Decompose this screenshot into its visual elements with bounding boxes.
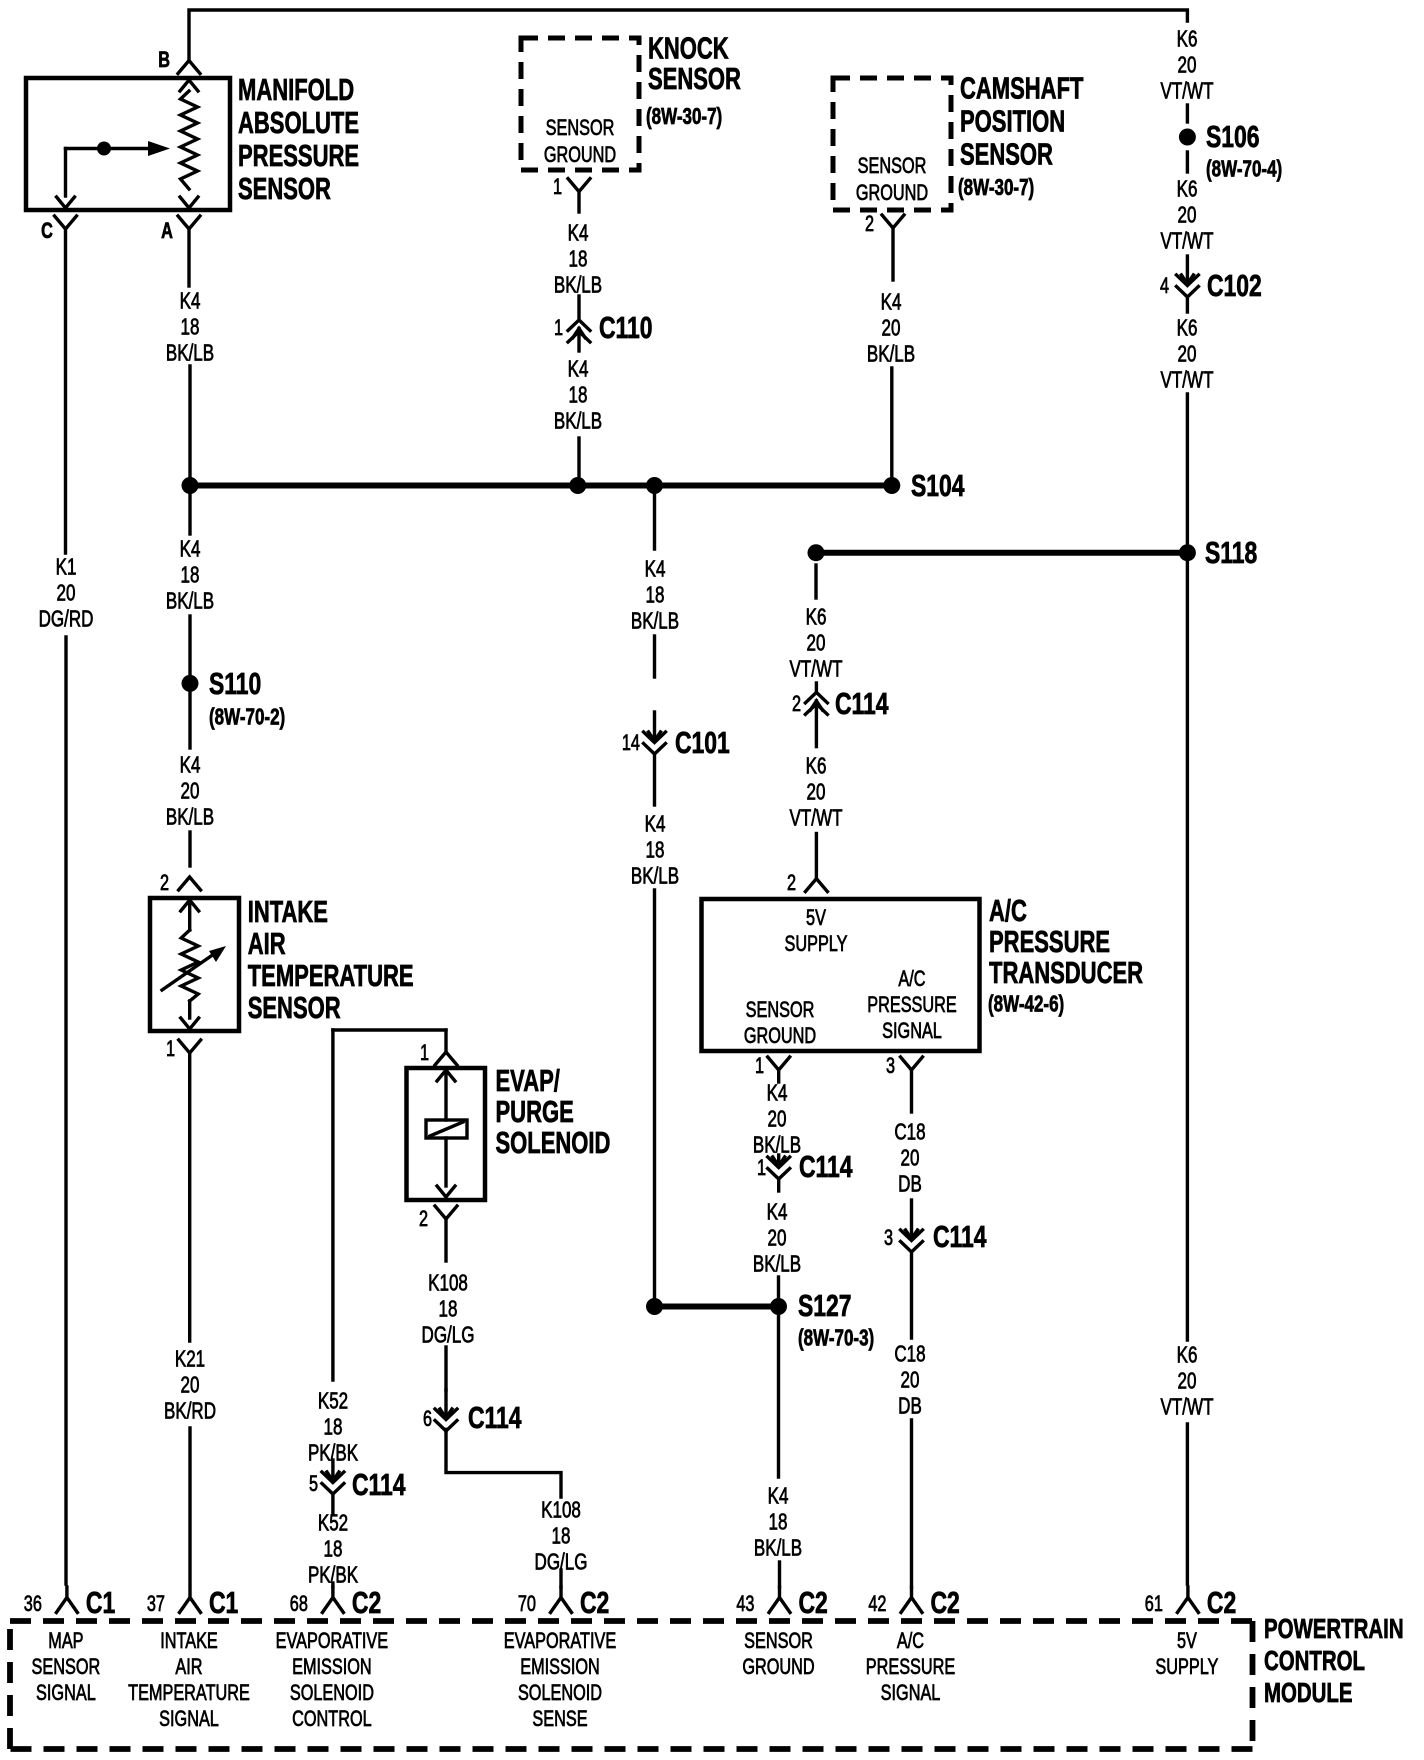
svg-text:37: 37 (147, 1592, 165, 1617)
svg-text:C114: C114 (468, 1400, 522, 1435)
svg-text:K4: K4 (768, 1484, 789, 1509)
svg-text:SENSE: SENSE (532, 1707, 587, 1732)
svg-text:GROUND: GROUND (544, 143, 616, 168)
svg-text:18: 18 (181, 315, 200, 340)
svg-text:ABSOLUTE: ABSOLUTE (238, 105, 359, 140)
svg-text:A/C: A/C (989, 893, 1027, 928)
svg-text:18: 18 (646, 838, 665, 863)
svg-text:INTAKE: INTAKE (160, 1629, 218, 1654)
wire K6 20 VT/WT from S118 to C114 pin 2 (814, 565, 817, 598)
splice S106 dot (1179, 129, 1196, 146)
svg-text:SOLENOID: SOLENOID (496, 1125, 611, 1160)
wire K108 18 DG/LG from EVAP pin 2 to C114 pin 6 (444, 1219, 447, 1261)
svg-text:C102: C102 (1207, 268, 1262, 303)
IAT internal thermistor (181, 900, 199, 911)
PCM pin 36 connector C1 (65, 1587, 68, 1598)
junction dot C114 branch at S118 (808, 544, 825, 561)
svg-text:POWERTRAIN: POWERTRAIN (1264, 1614, 1404, 1645)
svg-text:DB: DB (898, 1172, 922, 1197)
svg-text:2: 2 (792, 692, 801, 717)
svg-text:GROUND: GROUND (742, 1655, 814, 1680)
IAT sensor pin 2 connector (179, 877, 201, 890)
svg-text:POSITION: POSITION (960, 104, 1065, 139)
svg-text:K4: K4 (568, 357, 589, 382)
svg-text:TEMPERATURE: TEMPERATURE (128, 1681, 250, 1706)
svg-text:EVAPORATIVE: EVAPORATIVE (276, 1629, 389, 1654)
wire K4 18 BK/LB from S104 to C101 (653, 486, 656, 550)
connector C114 pin 6 (444, 1390, 447, 1418)
wire K4 18 BK/LB from MAP pin A to splice S104 (187, 229, 190, 286)
svg-text:K6: K6 (806, 754, 827, 779)
svg-text:KNOCK: KNOCK (648, 31, 729, 66)
svg-text:C18: C18 (894, 1342, 925, 1367)
junction dot A/C branch at S127 (770, 1298, 787, 1315)
svg-text:K4: K4 (881, 290, 902, 315)
svg-text:BK/LB: BK/LB (166, 805, 214, 830)
PCM pin 42 connector C2 (910, 1587, 913, 1598)
junction dot MAP branch at S104 (182, 477, 199, 494)
svg-text:K4: K4 (568, 221, 589, 246)
svg-text:SENSOR: SENSOR (960, 137, 1053, 172)
wire K4 20 BK/LB camshaft sensor to S104 (891, 228, 894, 280)
powertrain control module dashed box (10, 1618, 1253, 1624)
svg-text:C2: C2 (799, 1585, 828, 1620)
svg-text:K6: K6 (1177, 27, 1198, 52)
svg-text:20: 20 (1178, 1369, 1197, 1394)
camshaft pin 2 connector (882, 215, 904, 228)
svg-text:1: 1 (757, 1156, 766, 1181)
svg-text:K4: K4 (767, 1081, 788, 1106)
knock sensor pin 1 connector (568, 179, 590, 192)
IAT thermistor diagonal arrow (162, 954, 214, 990)
svg-text:C101: C101 (675, 725, 730, 760)
wire EVAP control branch horizontal jog (333, 1028, 446, 1031)
junction dot knock branch at S104 (569, 477, 586, 494)
svg-text:1: 1 (553, 175, 562, 200)
svg-text:A/C: A/C (897, 1629, 924, 1654)
splice S127 bus (655, 1304, 779, 1310)
svg-text:CONTROL: CONTROL (1264, 1646, 1365, 1677)
svg-text:18: 18 (324, 1537, 343, 1562)
svg-text:MAP: MAP (48, 1629, 83, 1654)
svg-text:20: 20 (807, 780, 826, 805)
EVAP/purge solenoid box (407, 1068, 486, 1200)
svg-text:C1: C1 (209, 1585, 238, 1620)
svg-text:S104: S104 (911, 468, 965, 503)
svg-text:CONTROL: CONTROL (292, 1707, 372, 1732)
svg-text:C: C (41, 219, 53, 244)
svg-text:EVAP/: EVAP/ (496, 1063, 561, 1098)
connector C114 pin 5 (331, 1460, 334, 1481)
svg-text:42: 42 (868, 1592, 886, 1617)
wire K1 20 DG/RD from MAP pin C to PCM pin 36 (64, 229, 67, 553)
svg-text:SIGNAL: SIGNAL (881, 1681, 941, 1706)
svg-text:(8W-30-7): (8W-30-7) (958, 175, 1034, 200)
connector C101 pin 14 (653, 712, 656, 741)
junction dot 5V column at S118 (1179, 544, 1196, 561)
A/C transducer pin 2 connector (805, 879, 827, 892)
svg-text:C1: C1 (86, 1585, 115, 1620)
svg-text:K4: K4 (180, 289, 201, 314)
A/C transducer pin 3 connector (901, 1057, 923, 1070)
svg-text:4: 4 (1160, 274, 1169, 299)
svg-text:20: 20 (901, 1368, 920, 1393)
svg-text:EMISSION: EMISSION (520, 1655, 600, 1680)
svg-text:GROUND: GROUND (744, 1024, 816, 1049)
svg-text:1: 1 (755, 1054, 764, 1079)
svg-text:18: 18 (324, 1415, 343, 1440)
wire K4 18 BK/LB from S127 to PCM pin 43 (777, 1307, 780, 1478)
svg-text:20: 20 (181, 779, 200, 804)
svg-text:BK/LB: BK/LB (754, 1536, 802, 1561)
wire K108 18 DG/LG from C114 pin 6 to PCM pin 70 (446, 1430, 561, 1498)
svg-text:C2: C2 (1207, 1585, 1236, 1620)
MAP sensor internal resistor (180, 80, 198, 91)
EVAP solenoid pin 1 connector (444, 1030, 447, 1052)
IAT sensor pin 1 connector (179, 1040, 201, 1053)
svg-text:36: 36 (24, 1592, 42, 1617)
svg-text:18: 18 (552, 1524, 571, 1549)
EVAP solenoid coil symbol (437, 1070, 455, 1081)
MAP sensor wiper arrow (66, 147, 149, 150)
svg-text:18: 18 (569, 383, 588, 408)
wire K4 18 BK/LB from S104 to S110 (188, 486, 191, 535)
svg-text:GROUND: GROUND (856, 181, 928, 206)
connector C110 pin 1 (577, 296, 580, 320)
svg-text:20: 20 (901, 1146, 920, 1171)
svg-text:SIGNAL: SIGNAL (36, 1681, 96, 1706)
svg-text:SIGNAL: SIGNAL (882, 1019, 942, 1044)
svg-text:20: 20 (882, 316, 901, 341)
junction dot C101 branch at S127 (646, 1298, 663, 1315)
svg-text:VT/WT: VT/WT (1161, 1395, 1214, 1420)
svg-text:K4: K4 (767, 1200, 788, 1225)
svg-text:K4: K4 (180, 753, 201, 778)
svg-text:C114: C114 (352, 1467, 406, 1502)
PCM pin 68 connector C2 (331, 1587, 334, 1598)
svg-text:BK/LB: BK/LB (166, 341, 214, 366)
svg-text:EMISSION: EMISSION (292, 1655, 372, 1680)
svg-text:SENSOR: SENSOR (858, 154, 927, 179)
svg-text:DG/LG: DG/LG (422, 1323, 475, 1348)
svg-text:(8W-70-3): (8W-70-3) (798, 1326, 874, 1351)
svg-text:DG/RD: DG/RD (39, 607, 94, 632)
connector C114 pin 3 (910, 1200, 913, 1239)
svg-text:20: 20 (57, 581, 76, 606)
svg-text:C110: C110 (599, 310, 653, 345)
svg-text:SOLENOID: SOLENOID (290, 1681, 374, 1706)
intake air temperature sensor box (150, 898, 239, 1031)
svg-text:18: 18 (181, 563, 200, 588)
wire K6 20 VT/WT from S106 to C102 (1186, 152, 1189, 172)
svg-text:BK/RD: BK/RD (164, 1399, 216, 1424)
svg-text:1: 1 (554, 316, 563, 341)
svg-text:K4: K4 (645, 557, 666, 582)
svg-text:18: 18 (569, 247, 588, 272)
svg-text:K52: K52 (318, 1389, 348, 1414)
svg-text:68: 68 (290, 1592, 308, 1617)
svg-text:K1: K1 (56, 555, 77, 580)
svg-text:S118: S118 (1205, 535, 1257, 570)
svg-text:PURGE: PURGE (496, 1094, 574, 1129)
svg-text:6: 6 (423, 1407, 432, 1432)
svg-text:2: 2 (419, 1207, 428, 1232)
svg-text:1: 1 (420, 1041, 429, 1066)
svg-text:SOLENOID: SOLENOID (518, 1681, 602, 1706)
svg-text:CAMSHAFT: CAMSHAFT (960, 71, 1084, 106)
svg-text:BK/LB: BK/LB (554, 409, 602, 434)
svg-text:5V: 5V (1177, 1629, 1197, 1654)
svg-text:S110: S110 (209, 666, 261, 701)
svg-text:AIR: AIR (175, 1655, 202, 1680)
svg-text:A/C: A/C (898, 967, 925, 992)
svg-text:SUPPLY: SUPPLY (1155, 1655, 1218, 1680)
MAP pin C connector (55, 216, 77, 229)
svg-text:5V: 5V (806, 906, 826, 931)
svg-text:K21: K21 (175, 1347, 205, 1372)
svg-text:SENSOR: SENSOR (248, 990, 341, 1025)
svg-text:VT/WT: VT/WT (1161, 229, 1214, 254)
wire K52 18 PK/BK from jog to C114 pin 5 (331, 1030, 334, 1380)
svg-text:SENSOR: SENSOR (648, 61, 741, 96)
svg-text:K6: K6 (806, 605, 827, 630)
svg-text:EVAPORATIVE: EVAPORATIVE (504, 1629, 617, 1654)
svg-text:2: 2 (160, 871, 169, 896)
svg-text:K52: K52 (318, 1511, 348, 1536)
connector C114 pin 1 (777, 1155, 780, 1166)
svg-text:SENSOR: SENSOR (744, 1629, 813, 1654)
wire top rail from MAP sensor pin B to 5V supply column (189, 10, 1187, 61)
MAP pin A connector (178, 216, 200, 229)
svg-text:SENSOR: SENSOR (746, 998, 815, 1023)
svg-text:3: 3 (884, 1226, 893, 1251)
svg-text:K6: K6 (1177, 1343, 1198, 1368)
svg-text:A: A (161, 219, 173, 244)
svg-text:INTAKE: INTAKE (248, 894, 328, 929)
svg-text:20: 20 (181, 1373, 200, 1398)
svg-text:C2: C2 (931, 1585, 960, 1620)
svg-text:14: 14 (622, 731, 640, 756)
svg-text:SIGNAL: SIGNAL (159, 1707, 219, 1732)
PCM pin 43 connector C2 (778, 1587, 781, 1598)
svg-text:K4: K4 (645, 812, 666, 837)
svg-text:SENSOR: SENSOR (546, 116, 615, 141)
svg-text:TRANSDUCER: TRANSDUCER (989, 955, 1143, 990)
connector C102 pin 4 (1186, 256, 1189, 284)
wire C18 20 DB from A/C pin 3 to C114 pin 3 (910, 1070, 913, 1112)
svg-text:C114: C114 (933, 1219, 987, 1254)
svg-text:20: 20 (1178, 342, 1197, 367)
PCM pin 61 connector C2 (1186, 1587, 1189, 1598)
svg-text:61: 61 (1145, 1592, 1163, 1617)
svg-text:K108: K108 (428, 1271, 468, 1296)
svg-text:SENSOR: SENSOR (238, 171, 331, 206)
svg-text:18: 18 (646, 583, 665, 608)
EVAP solenoid pin 2 connector (435, 1206, 457, 1219)
splice S110 dot (182, 675, 199, 692)
A/C pressure transducer box (702, 899, 980, 1051)
wire K21 20 BK/RD from IAT pin 1 to PCM pin 37 (188, 1053, 191, 1341)
PCM pin 37 connector C1 (188, 1587, 191, 1598)
svg-text:BK/LB: BK/LB (631, 609, 679, 634)
svg-text:C2: C2 (580, 1585, 609, 1620)
svg-text:2: 2 (787, 871, 796, 896)
knock sensor dashed box (521, 38, 639, 170)
svg-text:VT/WT: VT/WT (1161, 368, 1214, 393)
svg-text:C114: C114 (835, 686, 889, 721)
svg-text:VT/WT: VT/WT (790, 806, 843, 831)
junction dot camshaft branch at S104 (883, 477, 900, 494)
svg-text:(8W-42-6): (8W-42-6) (988, 992, 1064, 1017)
svg-text:20: 20 (768, 1226, 787, 1251)
camshaft position sensor dashed box (833, 78, 951, 210)
svg-text:43: 43 (736, 1592, 754, 1617)
svg-text:S106: S106 (1206, 119, 1260, 154)
svg-text:MODULE: MODULE (1264, 1678, 1353, 1709)
svg-text:20: 20 (1178, 53, 1197, 78)
svg-text:20: 20 (768, 1107, 787, 1132)
svg-text:BK/LB: BK/LB (867, 342, 915, 367)
svg-text:20: 20 (807, 631, 826, 656)
svg-text:C2: C2 (352, 1585, 381, 1620)
svg-text:K6: K6 (1177, 316, 1198, 341)
svg-text:VT/WT: VT/WT (1161, 79, 1214, 104)
svg-text:PRESSURE: PRESSURE (867, 993, 957, 1018)
splice S104 bus (190, 483, 892, 489)
svg-text:(8W-70-2): (8W-70-2) (209, 705, 285, 730)
svg-text:PRESSURE: PRESSURE (866, 1655, 956, 1680)
svg-text:S127: S127 (798, 1288, 852, 1323)
svg-text:1: 1 (166, 1037, 175, 1062)
MAP pin B connector (178, 61, 200, 74)
svg-text:C114: C114 (799, 1149, 853, 1184)
svg-text:K4: K4 (180, 537, 201, 562)
svg-text:5: 5 (309, 1472, 318, 1497)
svg-text:(8W-70-4): (8W-70-4) (1206, 157, 1282, 182)
svg-text:SENSOR: SENSOR (32, 1655, 101, 1680)
svg-text:(8W-30-7): (8W-30-7) (646, 104, 722, 129)
svg-text:BK/LB: BK/LB (166, 589, 214, 614)
splice S118 bus (816, 550, 1187, 556)
svg-text:K108: K108 (541, 1498, 581, 1523)
A/C transducer pin 1 connector (768, 1057, 790, 1070)
connector C114 pin 2 (815, 683, 818, 692)
svg-text:70: 70 (518, 1592, 536, 1617)
svg-text:MANIFOLD: MANIFOLD (238, 72, 354, 107)
wire K4 18 BK/LB knock sensor to C110 (577, 192, 580, 212)
svg-text:18: 18 (769, 1510, 788, 1535)
svg-text:20: 20 (1178, 203, 1197, 228)
svg-text:PRESSURE: PRESSURE (238, 138, 359, 173)
svg-text:BK/LB: BK/LB (554, 273, 602, 298)
wire K4 20 BK/LB from S110 to IAT sensor pin 2 (188, 692, 191, 748)
svg-text:18: 18 (439, 1297, 458, 1322)
svg-text:K6: K6 (1177, 177, 1198, 202)
svg-text:B: B (158, 48, 170, 73)
junction dot C101 branch at S104 (646, 477, 663, 494)
svg-text:TEMPERATURE: TEMPERATURE (248, 958, 414, 993)
svg-text:AIR: AIR (248, 926, 286, 961)
PCM pin 70 connector C2 (559, 1587, 562, 1598)
svg-text:SUPPLY: SUPPLY (784, 932, 847, 957)
svg-text:C18: C18 (894, 1120, 925, 1145)
wire K6 20 VT/WT from S118 to PCM pin 61 (1186, 560, 1189, 1340)
svg-text:3: 3 (886, 1054, 895, 1079)
svg-text:VT/WT: VT/WT (790, 657, 843, 682)
svg-text:BK/LB: BK/LB (631, 864, 679, 889)
svg-text:DB: DB (898, 1394, 922, 1419)
wire K4 20 BK/LB from A/C pin 1 to C114 pin 1 (777, 1070, 780, 1082)
svg-text:PRESSURE: PRESSURE (989, 924, 1110, 959)
svg-text:BK/LB: BK/LB (753, 1252, 801, 1277)
manifold absolute pressure sensor U1 box (26, 78, 230, 210)
svg-text:2: 2 (865, 212, 874, 237)
